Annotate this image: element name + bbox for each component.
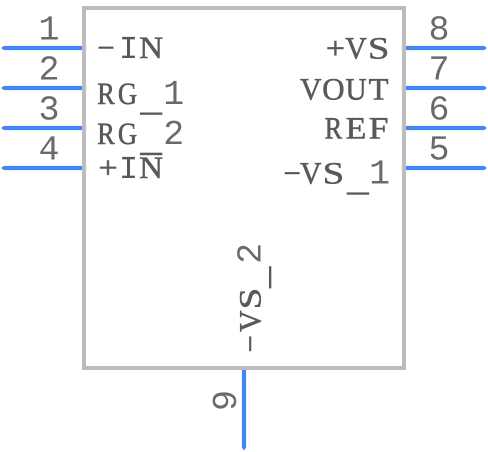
- pin 9 name -VS_2: [237, 245, 271, 351]
- pin 8 wire: [404, 46, 487, 50]
- pin 6 number: [431, 96, 447, 120]
- pin 8 name +VS: [328, 38, 388, 59]
- pin 6 name REF: [325, 118, 387, 138]
- pin 3 wire: [1, 126, 84, 130]
- pin 5 number: [431, 136, 448, 159]
- pin 2 name RG_1: [98, 81, 183, 115]
- pin 1 name -IN: [99, 37, 163, 58]
- pin 7 name VOUT: [300, 79, 388, 100]
- pin 2 number: [41, 56, 57, 79]
- pin 3 number: [41, 96, 58, 120]
- pin 4 number: [40, 136, 57, 159]
- pin 2 wire: [1, 86, 84, 90]
- pin 6 wire: [404, 126, 487, 130]
- pin 1 wire: [1, 46, 84, 50]
- pin 1 number: [41, 16, 58, 39]
- pin 5 wire: [404, 166, 487, 170]
- pin 4 wire: [1, 166, 84, 170]
- pin 3 name RG_2: [98, 121, 182, 156]
- pin 8 number: [431, 16, 447, 40]
- pin 4 name +IN with overline on N: [100, 157, 162, 178]
- pin 9 wire: [242, 366, 246, 451]
- pin 7 wire: [404, 86, 487, 90]
- pin 9 number: [213, 392, 237, 408]
- IC body: [84, 8, 404, 368]
- pin 7 number: [431, 56, 447, 79]
- pin 5 name -VS_1: [285, 160, 388, 194]
